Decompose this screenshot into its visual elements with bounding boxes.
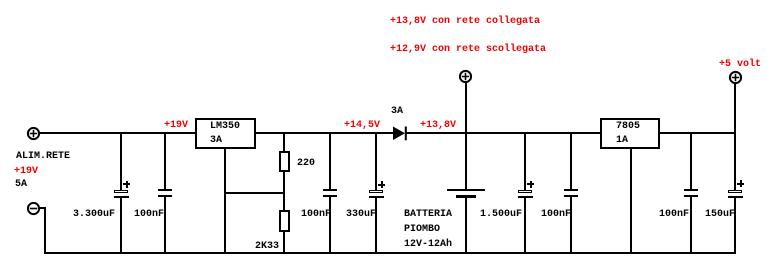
label C8 value 150uF [705, 210, 735, 220]
terminal P2 minus ALIM.RETE [25, 200, 42, 217]
label D1 rating 3A [391, 107, 403, 117]
wire minus terminal to ground rail [0, 0, 1, 1]
label C3 value 100nF [301, 210, 331, 220]
label C6 value 100nF [541, 210, 571, 220]
label C2 value 100nF [134, 210, 164, 220]
capacitor C2 100nF [0, 0, 1, 1]
label U2 7805 [616, 122, 640, 132]
wire +13,8V rail segment [406, 132, 601, 134]
terminal P3 plus battery [457, 68, 474, 85]
label R2 value 2K33 [255, 242, 279, 252]
wire ground rail (bottom) [44, 252, 736, 254]
label 5A [15, 180, 27, 190]
wire U1 ground pin to ground rail [224, 148, 226, 252]
capacitor C6 100nF [0, 0, 1, 1]
capacitor C5 1.500uF polarized [0, 0, 1, 1]
label +19V (input) [14, 167, 38, 177]
regulator U2 7805 [600, 118, 660, 149]
label C4 value 330uF [346, 210, 376, 220]
label BT1 PIOMBO [404, 225, 440, 235]
wire +14,5V rail segment [255, 132, 394, 134]
capacitor C7 100nF [0, 0, 1, 1]
label +14,5V [344, 121, 380, 131]
capacitor C8 150uF polarized with output drop wire [0, 0, 1, 1]
label C1 value 3.300uF [73, 210, 115, 220]
label +19V (rail) [164, 121, 188, 131]
capacitor C1 3.300uF polarized [0, 0, 1, 1]
label +13,8V (rail) [420, 121, 456, 131]
label +13,8V con rete collegata [390, 17, 540, 27]
resistor R2 2K33 [0, 0, 1, 1]
label +5 volt [719, 60, 761, 70]
wire top rail +19V segment [39, 132, 196, 134]
diode D1 [390, 124, 410, 142]
label BT1 12V-12Ah [404, 240, 452, 250]
battery BT1 [0, 0, 1, 1]
label U1 LM350 [210, 122, 240, 132]
wire U1 adj to resistor divider node [224, 192, 285, 194]
regulator U1 LM350 [195, 118, 256, 149]
terminal P4 plus +5V output [727, 69, 744, 86]
label U1 3A [210, 136, 222, 146]
label U2 1A [616, 136, 628, 146]
label C7 value 100nF [659, 210, 689, 220]
wire +5V rail segment [659, 132, 736, 134]
terminal P1 plus ALIM.RETE [25, 125, 42, 142]
resistor R1 220 [0, 0, 1, 1]
label R1 value 220 [297, 159, 315, 169]
label BT1 BATTERIA [404, 210, 452, 220]
label +12,9V con rete scollegata [390, 45, 546, 55]
label C5 value 1.500uF [480, 210, 522, 220]
label ALIM.RETE [16, 152, 70, 162]
capacitor C4 330uF polarized [0, 0, 1, 1]
capacitor C3 100nF [0, 0, 1, 1]
wire U2 ground pin to ground rail [630, 148, 632, 252]
